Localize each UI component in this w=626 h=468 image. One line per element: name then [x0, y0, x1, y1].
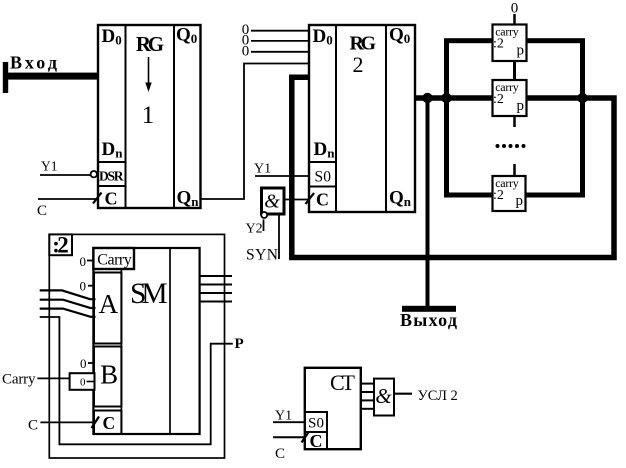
svg-text:CT: CT: [330, 370, 356, 395]
wire: RG1 Qn to RG2 D feedback: [201, 64, 310, 200]
svg-text:&: &: [375, 384, 392, 408]
CT S0 sub-box: [305, 412, 327, 432]
svg-text:SYN: SYN: [246, 247, 278, 264]
svg-text::2: :2: [52, 233, 69, 258]
svg-text:&: &: [264, 191, 280, 213]
svg-text:C: C: [37, 203, 47, 219]
svg-text:УСЛ 2: УСЛ 2: [418, 388, 458, 404]
wire: stub below carry2: [513, 116, 516, 127]
wire: Y1 to CT S0: [273, 421, 305, 423]
svg-text:P: P: [235, 336, 244, 352]
inverter circle at Y2 input of &: [261, 212, 267, 218]
wire: thick input line to RG1: [7, 73, 98, 80]
gate U6 AND (&) at CT outputs: [374, 379, 394, 416]
svg-text:S0: S0: [315, 169, 332, 186]
wire: Y2 stub: [263, 220, 265, 232]
svg-text:Y1: Y1: [41, 159, 58, 174]
svg-text:C: C: [28, 418, 38, 434]
svg-text:2: 2: [353, 52, 364, 77]
wire: C to RG1 clock: [38, 198, 98, 200]
svg-text:A: A: [99, 289, 119, 319]
wire: CT output lines (4): [361, 384, 374, 409]
svg-text:S0: S0: [308, 416, 324, 432]
divider U5 carry block 3: [493, 176, 526, 211]
divider U4 carry block 2: [493, 80, 527, 116]
dynamic clock slash RG1: [93, 193, 102, 204]
svg-text:C: C: [105, 189, 118, 209]
svg-text:C: C: [316, 190, 329, 210]
wire: SM output lines (4): [200, 276, 232, 302]
svg-text:Y1: Y1: [275, 409, 292, 424]
wire: & output: [394, 393, 412, 395]
dynamic clock slash RG2: [306, 193, 315, 204]
wire: bus line 3 into A (slanted): [40, 309, 96, 317]
dynamic clock slash SM: [92, 417, 100, 429]
wire: dash 0 to B: [88, 362, 94, 364]
wire: bus line 1 into A (slanted): [40, 290, 96, 299]
svg-text:0: 0: [80, 356, 87, 371]
wire: stub above carry3: [513, 164, 516, 176]
SM operand A sub-box: [94, 273, 121, 344]
adder section outer box: [49, 234, 224, 458]
SM operand B sub-box: [94, 347, 121, 407]
inverter circle at DSR input: [91, 171, 97, 177]
svg-text:Выход: Выход: [400, 310, 457, 330]
svg-text:1: 1: [142, 102, 155, 129]
gate U2 AND (&) for RG2 clock: [262, 188, 285, 214]
wire: carry1 to carry2 connector: [513, 61, 516, 80]
node: junction dot at carry loop right rail: [577, 93, 587, 103]
wire: thick output bus from RG2 Q through feedback loop back to RG2 D: [292, 77, 614, 257]
wire: vertical tap to output terminal: [426, 98, 430, 307]
wire: 0 line 3: [251, 51, 309, 53]
svg-text:0: 0: [80, 377, 86, 389]
wire: 0 line 1: [251, 30, 309, 32]
counter CT: [305, 368, 361, 449]
svg-text:0: 0: [242, 44, 250, 60]
svg-text:p: p: [517, 43, 525, 59]
wire: 0 to carry1 top: [513, 14, 516, 25]
register RG1: [98, 25, 201, 210]
node: junction dot at output tap: [422, 93, 432, 103]
node: junction dot at carry loop left rail: [441, 93, 451, 103]
wire: 0 line 2: [251, 40, 309, 42]
svg-text:C: C: [310, 431, 323, 451]
wire: dash 0 to carry box: [87, 260, 93, 262]
svg-text::2: :2: [493, 37, 504, 52]
dynamic clock slash CT: [302, 432, 310, 443]
svg-text:Y2: Y2: [246, 222, 263, 237]
SM C sub-box: [94, 411, 121, 435]
wire: C to CT clock: [273, 436, 305, 438]
terminal: Выход output bar: [402, 306, 456, 312]
svg-text:0: 0: [80, 254, 87, 269]
svg-text:SM: SM: [130, 278, 168, 310]
terminal: Вход input bar: [3, 62, 8, 93]
wire: C line to SM: [40, 421, 94, 423]
svg-text::2: :2: [493, 92, 504, 107]
svg-text:Y1: Y1: [254, 162, 271, 177]
svg-text:Carry: Carry: [2, 372, 36, 388]
ellipsis dots between carry blocks: [496, 144, 526, 148]
svg-text:C: C: [103, 413, 116, 433]
svg-text:p: p: [516, 193, 524, 209]
divider U3 carry block 1: [493, 25, 527, 62]
wire: P feedback routed around SM: [40, 317, 233, 444]
svg-text:B: B: [100, 359, 118, 389]
svg-text:Carry: Carry: [97, 252, 132, 269]
svg-text:p: p: [517, 98, 525, 114]
wire: dash 0 to A: [88, 285, 94, 287]
wire: Y1 to S0: [255, 175, 309, 177]
wire: SYN to & input: [278, 214, 280, 259]
wire: Carry to 0-box: [37, 377, 69, 379]
svg-text:DSR: DSR: [99, 169, 124, 184]
wire: carry divider loop rails (left and right) with top and bottom rows: [447, 41, 583, 195]
constant 0 box at B input: [70, 373, 95, 390]
adder SM outline: [93, 248, 199, 434]
CT C sub-box: [305, 431, 327, 451]
register RG2: [309, 25, 415, 213]
svg-text:C: C: [275, 446, 285, 462]
label box :2: [49, 233, 72, 258]
svg-text::2: :2: [493, 188, 504, 203]
svg-text:0: 0: [80, 279, 87, 294]
svg-text:RG: RG: [136, 32, 164, 56]
SM carry sub-box: [93, 248, 134, 269]
wire: bus line 2 into A (slanted): [40, 300, 96, 308]
wire: & output to RG2 C: [284, 199, 309, 201]
wire: Y1 to DSR: [40, 174, 92, 176]
